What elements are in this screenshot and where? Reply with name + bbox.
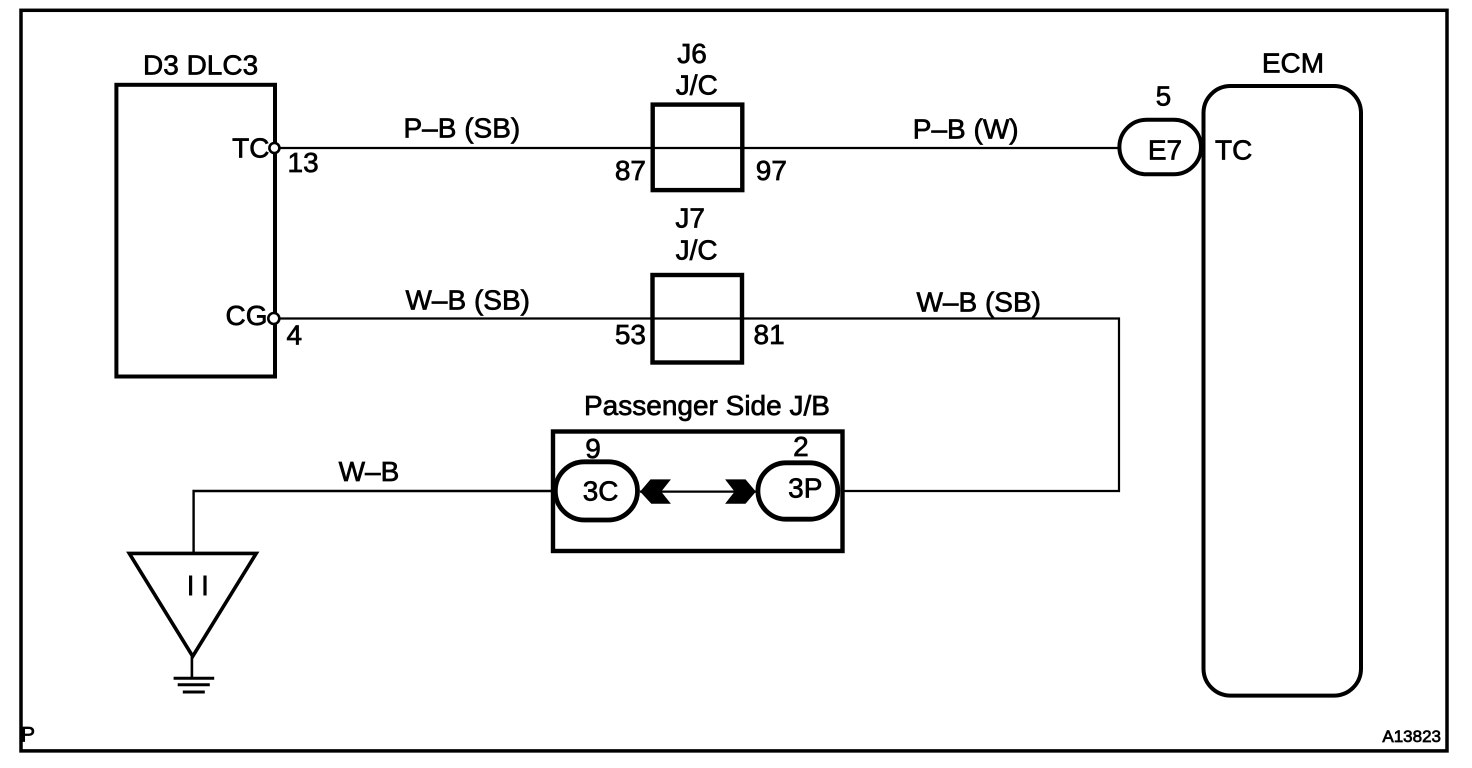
- svg-text:P: P: [21, 723, 35, 746]
- pin circle TC (pin 13): [269, 143, 279, 153]
- svg-text:W–B (SB): W–B (SB): [406, 285, 530, 316]
- connector E7 oval: [1119, 120, 1201, 175]
- svg-text:3C: 3C: [583, 475, 619, 506]
- wire between 3C and 3P: [640, 491, 756, 493]
- arrow left (female connector marker): [640, 479, 671, 503]
- svg-text:87: 87: [615, 155, 646, 186]
- svg-text:P–B (SB): P–B (SB): [404, 113, 521, 144]
- svg-text:TC: TC: [1215, 134, 1252, 165]
- arrow right (male connector marker): [725, 479, 756, 503]
- ground triangle: [129, 553, 256, 656]
- connector 3C oval: [555, 462, 637, 520]
- svg-text:CG: CG: [226, 300, 268, 331]
- wire CG: DLC3 CG pin to J/B 3P via J7: [274, 319, 1119, 492]
- svg-text:ECM: ECM: [1262, 48, 1324, 79]
- svg-text:Passenger Side J/B: Passenger Side J/B: [584, 390, 830, 421]
- svg-text:2: 2: [793, 431, 809, 462]
- svg-text:TC: TC: [232, 133, 269, 164]
- junction connector J7 box: [653, 275, 743, 363]
- svg-text:D3 DLC3: D3 DLC3: [143, 50, 258, 81]
- pin circle CG (pin 4): [268, 313, 279, 324]
- ground code bars II: [189, 576, 192, 596]
- svg-text:97: 97: [756, 155, 787, 186]
- connector D3 DLC3 box: [116, 85, 275, 377]
- ground hash lines: [174, 677, 215, 680]
- wire W-B: ground to J/B 3C: [194, 491, 553, 553]
- svg-text:13: 13: [288, 147, 319, 178]
- svg-text:9: 9: [585, 433, 601, 464]
- svg-text:J6: J6: [677, 38, 707, 69]
- svg-text:81: 81: [754, 319, 785, 350]
- svg-text:J7: J7: [675, 203, 705, 234]
- svg-text:53: 53: [615, 319, 646, 350]
- svg-text:W–B (SB): W–B (SB): [917, 287, 1041, 318]
- ECM box: [1204, 86, 1362, 696]
- svg-text:P–B (W): P–B (W): [913, 113, 1019, 144]
- svg-text:3P: 3P: [788, 473, 822, 504]
- junction connector J6 box: [653, 105, 743, 191]
- svg-text:5: 5: [1156, 81, 1172, 112]
- Passenger Side J/B box: [553, 432, 843, 552]
- svg-text:W–B: W–B: [339, 456, 400, 487]
- connector 3P oval: [758, 463, 838, 519]
- svg-text:E7: E7: [1148, 134, 1182, 165]
- svg-text:J/C: J/C: [676, 235, 718, 266]
- svg-text:J/C: J/C: [676, 69, 718, 100]
- svg-text:4: 4: [287, 320, 303, 351]
- wire TC: DLC3 TC pin to ECM E7: [274, 147, 1119, 149]
- ground stem: [191, 655, 194, 678]
- svg-text:A13823: A13823: [1382, 727, 1441, 746]
